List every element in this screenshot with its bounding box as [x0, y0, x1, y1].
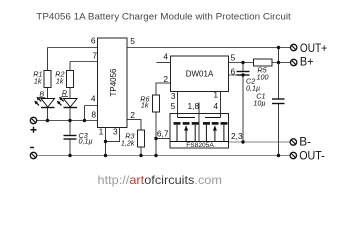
svg-text:5: 5 — [231, 53, 236, 63]
junction dot C2 / B- rail — [241, 140, 244, 143]
junction dot C1 / B+ rail — [277, 61, 280, 64]
junction dot C3 / ground rail — [68, 154, 71, 157]
wire FS8205A pins 6,7 — [156, 138, 170, 140]
svg-text:2: 2 — [163, 74, 168, 84]
wire B- rail — [229, 141, 291, 143]
svg-text:http://artofcircuits.com: http://artofcircuits.com — [98, 173, 223, 187]
svg-text:100: 100 — [257, 73, 269, 82]
svg-text:3: 3 — [113, 127, 118, 137]
svg-text:5: 5 — [171, 101, 176, 111]
svg-text:2,3: 2,3 — [231, 131, 243, 141]
terminal B+ — [291, 55, 314, 69]
wire DW01A pin4 stub — [157, 62, 171, 64]
junction dot pins4-8 / plus rail — [83, 119, 86, 122]
wire DW01A pin5 to R5 — [229, 62, 254, 64]
resistor R1 — [33, 70, 51, 88]
svg-text:B+: B+ — [300, 55, 314, 69]
wire C3 top stub — [69, 121, 71, 136]
svg-text:6: 6 — [231, 67, 236, 77]
IC TP4056 — [91, 36, 135, 137]
svg-text:TP4056 1A Battery Charger Modu: TP4056 1A Battery Charger Module with Pr… — [36, 12, 291, 23]
IC FS8205A — [157, 101, 243, 149]
junction dot R3 / ground rail — [139, 154, 142, 157]
svg-text:1k: 1k — [56, 77, 64, 86]
resistor R3 — [121, 130, 145, 147]
junction dot LED B / plus rail — [46, 119, 49, 122]
resistor R6 — [140, 95, 159, 113]
svg-text:FS8205A: FS8205A — [186, 142, 214, 149]
wire C2 bottom to B- rail — [242, 75, 244, 142]
resistor R5 — [254, 59, 273, 82]
transistor Q2 right MOSFET of FS8205A — [203, 118, 228, 142]
wire C1 vertical top — [278, 48, 280, 100]
wire LED R to plus rail — [69, 108, 71, 121]
junction dot pin1 / ground rail — [104, 154, 107, 157]
svg-text:TP4056: TP4056 — [109, 68, 118, 97]
svg-text:OUT+: OUT+ — [300, 41, 327, 55]
wire DW01A pin1 to FS8205A pin4 — [220, 92, 222, 118]
svg-text:1: 1 — [213, 90, 218, 100]
svg-text:4: 4 — [91, 94, 96, 104]
wire pin7 — [70, 61, 98, 63]
svg-text:5: 5 — [130, 36, 135, 46]
wire DW01A pin3 to FS8205A pin5 — [177, 92, 179, 118]
svg-text:1k: 1k — [141, 101, 149, 110]
svg-text:7: 7 — [92, 51, 97, 61]
wire R2 top stub — [69, 62, 71, 71]
svg-text:1: 1 — [99, 127, 104, 137]
svg-text:6,7: 6,7 — [157, 129, 169, 139]
wire pin6 rail — [48, 47, 98, 49]
wire pins 4-8 vertical — [84, 106, 86, 121]
junction dot C1 / ground rail — [277, 154, 280, 157]
svg-text:2: 2 — [130, 110, 135, 120]
capacitor C1 — [253, 91, 284, 107]
wire R3 bottom — [140, 147, 142, 156]
wire TP4056 pin1 — [105, 128, 107, 156]
svg-text:R: R — [62, 88, 67, 97]
wire R1 to LED B — [47, 88, 49, 99]
junction dot C2 / pin6 wire — [241, 73, 244, 76]
svg-text:OUT-: OUT- — [299, 148, 325, 162]
junction dot R6 / ground rail — [154, 154, 157, 157]
LED R — [57, 88, 77, 107]
wire R6 bottom — [155, 112, 157, 156]
svg-text:B-: B- — [299, 135, 311, 149]
capacitor C3 — [64, 131, 93, 146]
svg-text:DW01A: DW01A — [186, 70, 214, 79]
transistor Q1 left MOSFET of FS8205A — [174, 118, 199, 142]
wire R5 to B+ — [272, 62, 291, 64]
svg-text:3: 3 — [171, 91, 176, 101]
junction dot C1 / OUT+ rail — [277, 46, 280, 49]
terminal B- — [290, 135, 311, 149]
LED B — [34, 89, 54, 107]
capacitor C2 — [237, 72, 261, 93]
wire plus rail — [37, 120, 98, 122]
svg-text:1k: 1k — [34, 77, 42, 86]
wire LED B to plus rail — [47, 108, 49, 121]
wire TP4056 pin3 — [106, 128, 120, 142]
wire FS8205A interior rail — [170, 141, 229, 143]
svg-text:1,8: 1,8 — [188, 101, 200, 111]
wire DW01A pin6 — [229, 74, 244, 76]
wire pin4 — [85, 105, 98, 107]
wire ground rail — [37, 155, 291, 157]
IC DW01A — [163, 52, 235, 102]
svg-text:1,2k: 1,2k — [121, 138, 135, 147]
wire R1 top stub — [47, 48, 49, 71]
wire C2 top stub — [242, 63, 244, 72]
wire TP4056 pin2 to R3 — [127, 120, 141, 131]
wire R2 to LED R — [69, 88, 71, 99]
terminal IN- — [30, 148, 37, 159]
svg-text:B: B — [39, 89, 44, 98]
svg-text:4: 4 — [163, 52, 168, 62]
wire FS8205A pins 1,8 stub — [198, 103, 200, 142]
terminal OUT- — [290, 148, 325, 162]
wire OUT+ rail — [127, 47, 291, 49]
svg-text:10µ: 10µ — [253, 99, 265, 108]
svg-text:4: 4 — [213, 101, 218, 111]
resistor R2 — [55, 70, 73, 88]
wire C1 vertical bottom — [278, 104, 280, 156]
svg-text:0,1µ: 0,1µ — [79, 137, 93, 146]
junction dot C2 / B+ rail — [241, 61, 244, 64]
terminal OUT+ — [291, 41, 328, 55]
junction dot R6 / 6,7 wire — [154, 137, 157, 140]
wire R6 top to DW01A pin2 — [156, 83, 171, 95]
junction dot LED R / plus rail — [68, 119, 71, 122]
wire C3 bottom stub — [69, 139, 71, 156]
svg-text:8: 8 — [91, 109, 96, 119]
terminal IN+ — [30, 117, 36, 132]
junction dot pin1-pin3 — [104, 140, 107, 143]
svg-text:6: 6 — [91, 36, 96, 46]
